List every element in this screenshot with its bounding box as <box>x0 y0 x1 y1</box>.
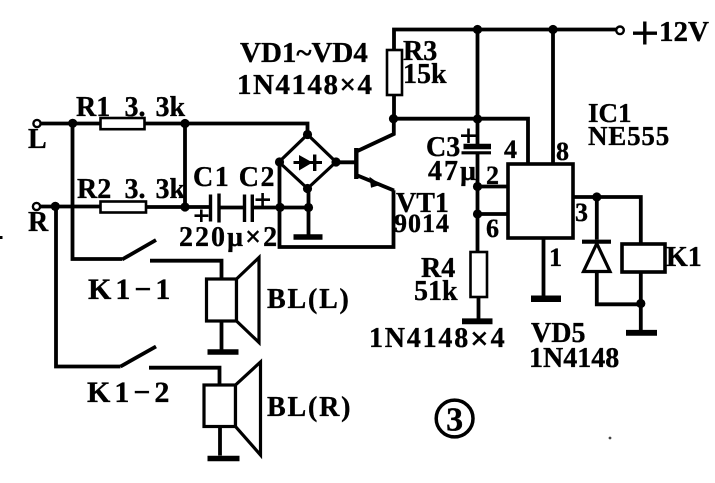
wire: R1/R2 right vertical <box>183 124 187 208</box>
stray mark left edge <box>0 236 3 239</box>
wire: pin 2 <box>478 185 509 189</box>
bridge diode symbol <box>294 161 323 164</box>
wire: L/R mix vertical + K1-1 feed <box>73 123 123 259</box>
transistor VT1 collector <box>358 119 394 151</box>
terminal L <box>33 120 40 127</box>
svg-text:3: 3 <box>575 198 588 227</box>
svg-text:3.: 3. <box>125 92 146 123</box>
figure number 3 (circled) <box>436 400 473 437</box>
ground (K1) <box>626 330 657 336</box>
wire: top +12V rail <box>394 30 617 51</box>
ground (bridge) <box>294 234 323 239</box>
wire: rail drop to C3 <box>476 30 480 145</box>
terminal +12V <box>616 27 624 35</box>
wire: bridge bottom to ground <box>307 189 311 235</box>
resistor R2 <box>101 202 147 213</box>
svg-text:BL(R): BL(R) <box>267 392 352 423</box>
ground (BL R) <box>208 456 240 462</box>
transistor VT1 emitter <box>358 176 395 191</box>
svg-text:VD1~VD4: VD1~VD4 <box>240 37 368 69</box>
svg-text:BL(L): BL(L) <box>267 284 351 315</box>
wire <box>221 206 244 210</box>
svg-text:R: R <box>28 207 49 238</box>
svg-text:15k: 15k <box>403 59 447 90</box>
svg-text:12V: 12V <box>659 16 709 48</box>
junction dots <box>473 25 482 34</box>
resistor R4 <box>471 252 488 297</box>
ground (pin 1) <box>531 295 561 302</box>
stray dot <box>609 437 612 440</box>
wire: pin 1 to ground <box>542 238 546 296</box>
wire: R node to K1-2 <box>56 207 121 367</box>
switch K1-1 <box>122 240 156 260</box>
switch K1-2 <box>121 347 157 367</box>
svg-text:1N4148: 1N4148 <box>529 343 619 374</box>
relay K1 <box>622 244 665 272</box>
op-amp U1 : IC1 NE555 timer box <box>508 164 573 238</box>
svg-text:1N4148×4: 1N4148×4 <box>237 69 373 101</box>
diode bridge VD1-VD4 <box>279 135 336 189</box>
svg-text:NE555: NE555 <box>588 121 670 151</box>
svg-text:L: L <box>28 124 47 155</box>
svg-text:4: 4 <box>504 135 517 164</box>
resistor R3 <box>387 50 402 95</box>
svg-text:51k: 51k <box>414 276 458 307</box>
svg-text:3k: 3k <box>156 92 186 123</box>
svg-text:8: 8 <box>556 137 569 166</box>
svg-text:3: 3 <box>446 402 463 439</box>
capacitor C1 <box>209 195 212 222</box>
resistor R1 <box>101 118 145 129</box>
speaker BL(L) <box>207 279 237 321</box>
wire <box>254 206 309 210</box>
svg-text:K1−1: K1−1 <box>88 273 174 306</box>
svg-text:K1−2: K1−2 <box>87 376 173 409</box>
svg-text:1N4148×4: 1N4148×4 <box>369 322 506 358</box>
capacitor C2 <box>243 195 246 223</box>
transistor Q1 VT1 base lead <box>336 160 355 164</box>
svg-text:3k: 3k <box>156 174 186 205</box>
svg-text:9014: 9014 <box>394 209 450 238</box>
label +12V <box>633 22 657 45</box>
terminal R <box>33 203 40 210</box>
svg-text:C1 C2: C1 C2 <box>193 162 276 193</box>
wire: pin 3 to relay <box>573 197 641 244</box>
svg-text:1: 1 <box>549 243 562 272</box>
wire: collector node to pin4 <box>393 119 528 164</box>
svg-text:47µ: 47µ <box>428 156 478 187</box>
svg-text:K1: K1 <box>666 242 702 273</box>
ground (BL L) <box>208 349 239 355</box>
svg-text:R1: R1 <box>76 92 110 123</box>
svg-text:R2: R2 <box>77 174 111 205</box>
wire: pin 6 <box>478 212 509 216</box>
capacitor C3 <box>464 144 492 150</box>
wire: pin8 drop <box>551 30 555 165</box>
wire: top into bridge <box>185 124 308 135</box>
svg-text:220µ×2: 220µ×2 <box>179 222 279 253</box>
diode VD5 <box>595 197 599 240</box>
wire: C3 to R4 top <box>476 154 480 252</box>
svg-text:6: 6 <box>486 214 499 243</box>
svg-text:3.: 3. <box>125 174 146 205</box>
svg-text:2: 2 <box>486 161 499 190</box>
ground (R4) <box>462 318 493 324</box>
transistor VT1 base bar <box>354 148 358 179</box>
wire: emitter return loop <box>280 162 394 247</box>
speaker BL(R) <box>204 385 236 427</box>
